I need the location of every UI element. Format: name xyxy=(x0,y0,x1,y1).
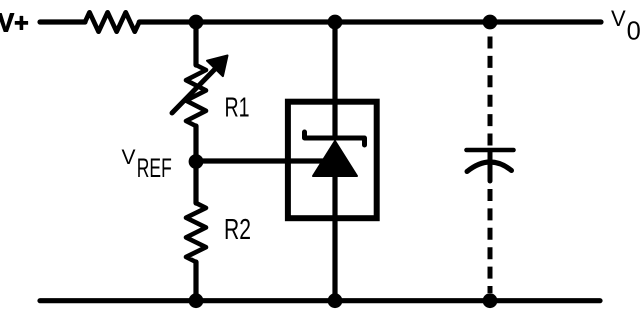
wire cathode: top rail into regulator xyxy=(332,22,337,138)
wire from top rail to R1 xyxy=(193,22,198,65)
node VREF xyxy=(189,154,204,169)
node: bottom junction regulator xyxy=(328,293,343,308)
resistor R2 xyxy=(186,203,206,262)
label VREF xyxy=(122,146,172,183)
wire from R2 to bottom rail xyxy=(193,262,198,301)
node: bottom junction R2 xyxy=(189,293,204,308)
regulator cathode bar with ticks xyxy=(305,132,365,145)
bottom rail wire xyxy=(40,298,600,303)
resistor (series input, unlabeled) xyxy=(85,12,139,31)
wire (dashed) capacitor branch lower xyxy=(488,189,493,293)
label V0 xyxy=(611,6,640,46)
wire from R1 to VREF node xyxy=(193,126,198,161)
wire (dashed) capacitor branch upper xyxy=(488,37,493,146)
node: bottom junction capacitor xyxy=(483,293,498,308)
capacitor center lead xyxy=(488,152,493,181)
svg-text:V: V xyxy=(611,6,626,31)
arrow of variable resistor R1 xyxy=(172,68,216,113)
resistor R1 (variable) xyxy=(186,65,206,126)
wire VREF to regulator reference xyxy=(196,158,324,163)
regulator U1 box xyxy=(288,102,377,219)
node: top junction capacitor branch xyxy=(483,15,498,30)
svg-text:REF: REF xyxy=(137,154,172,184)
svg-text:0: 0 xyxy=(627,18,640,46)
svg-text:R2: R2 xyxy=(224,214,251,246)
wire top rail right xyxy=(139,19,601,24)
wire top rail left xyxy=(40,19,85,24)
node: top junction regulator branch xyxy=(328,15,343,30)
svg-text:R1: R1 xyxy=(225,92,250,123)
node: top junction R1 branch xyxy=(189,15,204,30)
svg-text:V+: V+ xyxy=(0,9,29,37)
regulator triangle (anode) xyxy=(313,141,357,176)
wire from VREF node to R2 xyxy=(193,161,198,203)
wire anode: regulator to bottom rail xyxy=(332,176,337,301)
svg-text:V: V xyxy=(122,146,136,169)
capacitor C (output, dashed optional) top plate xyxy=(467,148,514,153)
capacitor curved plate xyxy=(467,162,512,172)
